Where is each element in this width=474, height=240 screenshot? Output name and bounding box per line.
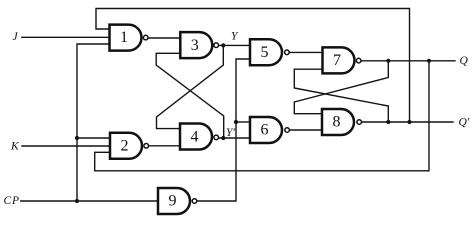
svg-text:J: J bbox=[13, 31, 19, 43]
svg-text:9: 9 bbox=[169, 193, 177, 210]
svg-text:K: K bbox=[10, 141, 20, 153]
svg-text:1: 1 bbox=[120, 29, 128, 46]
svg-text:5: 5 bbox=[261, 44, 269, 61]
svg-text:Q′: Q′ bbox=[459, 116, 470, 128]
svg-text:6: 6 bbox=[261, 122, 269, 139]
svg-text:2: 2 bbox=[121, 137, 129, 154]
svg-text:4: 4 bbox=[191, 129, 199, 146]
svg-text:C: C bbox=[4, 195, 12, 207]
svg-text:Q: Q bbox=[460, 55, 469, 67]
svg-text:Y′: Y′ bbox=[226, 127, 235, 139]
svg-text:3: 3 bbox=[191, 37, 199, 54]
svg-text:8: 8 bbox=[333, 114, 341, 131]
svg-text:P: P bbox=[11, 195, 19, 207]
svg-text:7: 7 bbox=[333, 52, 341, 69]
